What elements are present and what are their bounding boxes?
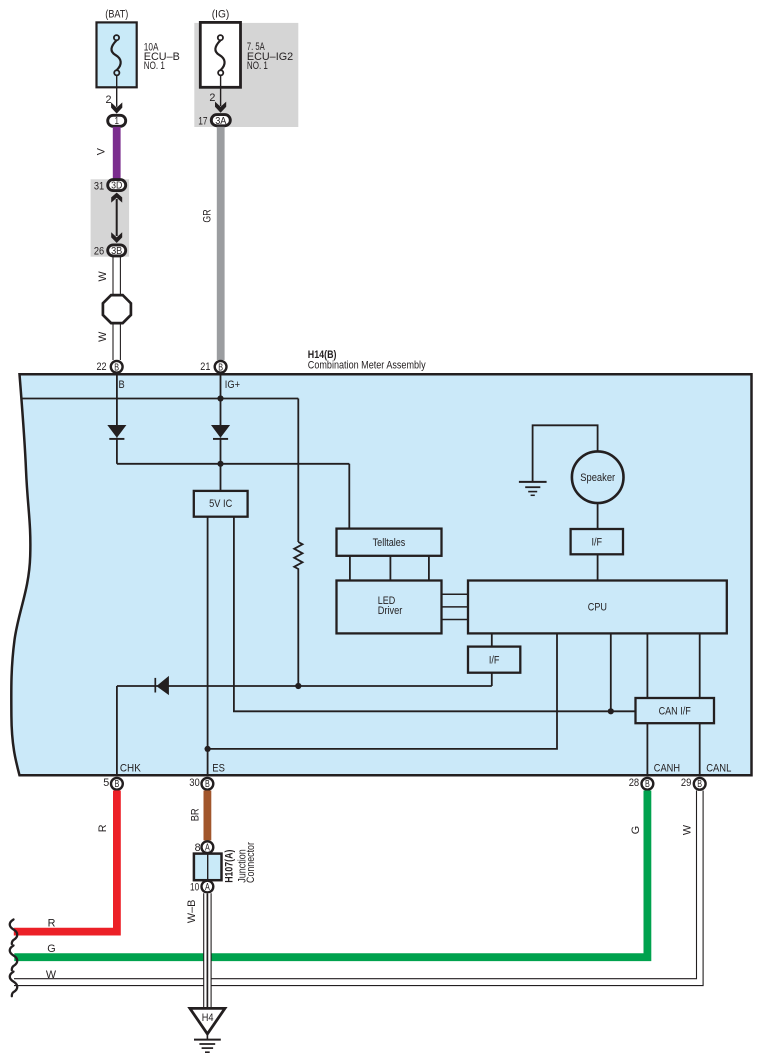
- svg-text:CAN I/F: CAN I/F: [659, 706, 692, 718]
- svg-text:NO. 1: NO. 1: [247, 60, 268, 72]
- ground symbol (speaker): [519, 482, 547, 495]
- svg-text:3B: 3B: [111, 246, 122, 257]
- svg-text:BR: BR: [189, 808, 201, 821]
- I/F box U3: [468, 647, 520, 673]
- wire pin21 down to diode D2: [220, 375, 222, 425]
- pin 5 connector B: [111, 778, 123, 790]
- svg-text:21: 21: [200, 361, 210, 373]
- svg-text:I/F: I/F: [592, 536, 603, 548]
- svg-text:5V IC: 5V IC: [209, 498, 232, 510]
- fuse F1 ECU-B body: [97, 22, 137, 87]
- pin 8 connector A: [202, 841, 214, 853]
- svg-text:22: 22: [97, 361, 107, 373]
- svg-text:V: V: [96, 147, 108, 155]
- svg-text:A: A: [205, 882, 210, 893]
- wire W white (CANL): [14, 791, 703, 986]
- svg-text:(BAT): (BAT): [105, 9, 128, 21]
- svg-text:ES: ES: [212, 763, 225, 775]
- pin 29 connector B: [694, 778, 706, 790]
- svg-text:R: R: [48, 917, 56, 929]
- ground symbol H4 bars: [194, 1034, 221, 1052]
- continuation squiggle (R): [10, 920, 18, 945]
- svg-text:G: G: [630, 826, 642, 834]
- svg-text:Telltales: Telltales: [373, 537, 406, 549]
- wire CPU down to CAN rail node: [610, 633, 612, 711]
- wires Telltales to LED Driver: [350, 556, 429, 581]
- wire R red (CHK): [14, 791, 117, 932]
- 5V IC box: [194, 491, 248, 517]
- arrow into connector 3A: [215, 102, 226, 113]
- svg-text:Driver: Driver: [378, 605, 403, 617]
- svg-text:GR: GR: [202, 209, 214, 222]
- svg-text:NO. 1: NO. 1: [144, 60, 165, 72]
- wire CPU to CANH pin 28: [646, 633, 648, 776]
- svg-text:5: 5: [103, 777, 109, 789]
- svg-text:3D: 3D: [111, 181, 122, 192]
- Telltales box: [337, 529, 442, 556]
- junction node resistor/CHK rail: [295, 683, 301, 689]
- svg-text:1: 1: [114, 116, 119, 127]
- diode D1: [107, 425, 126, 464]
- svg-text:2: 2: [105, 94, 111, 106]
- svg-text:G: G: [47, 943, 55, 955]
- svg-text:(IG): (IG): [212, 9, 230, 21]
- svg-text:I/F: I/F: [489, 654, 500, 666]
- wire CHK rail y686: [117, 685, 492, 687]
- diode D2: [211, 425, 230, 464]
- svg-text:B: B: [114, 362, 119, 373]
- resistor R1: [294, 542, 302, 686]
- wire CPU to CANL pin 29: [699, 633, 701, 776]
- pin 28 connector B: [642, 778, 654, 790]
- wire 5VIC right output down then right: [234, 517, 636, 712]
- wire W-B white/black (to ground): [204, 893, 211, 1009]
- LED Driver box: [337, 581, 442, 634]
- svg-text:CPU: CPU: [588, 601, 607, 613]
- CPU box U4: [468, 581, 727, 634]
- continuation squiggle (G): [10, 946, 18, 971]
- svg-text:H107(A): H107(A): [223, 849, 235, 883]
- wire speaker to I/F U2: [597, 503, 599, 529]
- wire I/F U3 to CHK rail: [491, 673, 493, 686]
- svg-text:26: 26: [94, 245, 104, 257]
- svg-text:10: 10: [190, 881, 199, 893]
- speaker SP1: [572, 451, 624, 503]
- junction node CAN rail: [608, 708, 614, 714]
- wire W white upper: [113, 256, 120, 360]
- ground H4 triangle: [190, 1008, 225, 1034]
- wire G green (CANH): [14, 791, 647, 958]
- svg-text:W–B: W–B: [186, 900, 198, 923]
- junction connector H107(A) box: [194, 854, 222, 881]
- svg-text:B: B: [645, 779, 650, 790]
- svg-text:B: B: [119, 379, 125, 391]
- wire GR gray: [217, 127, 225, 360]
- wire fuse F2 to arrow: [220, 75, 222, 106]
- bus LED Driver to CPU: [442, 594, 468, 619]
- connector 3B: [108, 245, 126, 257]
- svg-text:Combination Meter Assembly: Combination Meter Assembly: [308, 360, 426, 372]
- svg-text:W: W: [97, 271, 109, 282]
- ground (speaker) wire: [533, 425, 598, 481]
- svg-text:3A: 3A: [215, 116, 226, 127]
- svg-text:8: 8: [195, 842, 201, 854]
- svg-text:CANL: CANL: [706, 763, 731, 775]
- connector block 3D/3B gray background: [91, 179, 130, 256]
- arrow up (3D side): [111, 193, 122, 203]
- pin 10 connector A: [202, 881, 214, 893]
- svg-text:IG+: IG+: [225, 379, 240, 391]
- svg-text:30: 30: [189, 777, 200, 789]
- svg-text:A: A: [205, 843, 210, 854]
- wire BR brown (ES): [203, 791, 211, 841]
- svg-text:W: W: [682, 824, 694, 835]
- junction node at IG+/y398: [217, 395, 223, 401]
- pin 21 connector B: [215, 361, 227, 373]
- wire down to resistor R1: [297, 399, 299, 543]
- junction node ES rail: [205, 746, 211, 752]
- svg-text:31: 31: [94, 180, 104, 192]
- junction node at 5VIC rail: [217, 461, 223, 467]
- svg-text:R: R: [97, 824, 109, 832]
- relay block gray background (IG): [194, 23, 298, 127]
- svg-text:28: 28: [629, 777, 640, 789]
- connector 1: [108, 115, 126, 127]
- continuation squiggle (W): [10, 972, 18, 997]
- svg-text:2: 2: [209, 92, 215, 104]
- wire I/F U2 to CPU: [597, 554, 599, 580]
- svg-text:W: W: [46, 969, 57, 981]
- wire horizontal rail y463: [117, 463, 349, 465]
- arrow down (3B side): [111, 232, 122, 243]
- fuse F2 ECU-IG2 body: [200, 22, 240, 87]
- svg-text:H4: H4: [202, 1012, 214, 1024]
- svg-text:17: 17: [198, 115, 207, 127]
- svg-text:W: W: [97, 331, 109, 342]
- noise filter octagon: [103, 295, 131, 323]
- diode D3 (points left): [155, 676, 169, 695]
- CAN I/F box U5: [636, 698, 715, 723]
- pin 22 connector B: [111, 361, 123, 373]
- wire between arrows: [116, 199, 118, 236]
- wire down to 5V IC: [220, 464, 222, 491]
- I/F box U2 (speaker): [571, 529, 623, 554]
- svg-text:Speaker: Speaker: [580, 472, 615, 484]
- wire down to Telltales: [348, 464, 350, 529]
- wire fuse F1 to arrow: [116, 75, 118, 106]
- wire 5VIC left output down to pin 30: [207, 517, 209, 777]
- connector 3A: [211, 115, 230, 127]
- arrow into connector 1: [111, 102, 122, 113]
- value label 7.5A ECU-IG2 NO. 1: [247, 41, 293, 72]
- svg-text:B: B: [115, 779, 120, 790]
- svg-text:B: B: [205, 779, 210, 790]
- combination meter assembly box H14(B): [11, 374, 751, 775]
- wire horizontal B rail y398: [22, 398, 298, 400]
- wire pin22 down to diode D1: [116, 375, 118, 425]
- wire pin 5 up to CHK rail: [116, 686, 118, 776]
- wire V violet: [113, 127, 121, 180]
- svg-text:B: B: [218, 362, 223, 373]
- svg-text:B: B: [697, 779, 702, 790]
- svg-text:CHK: CHK: [120, 763, 142, 775]
- value label 10A ECU-B NO. 1: [144, 42, 180, 73]
- pin 30 connector B: [202, 778, 214, 790]
- connector 3D: [108, 180, 126, 192]
- svg-text:Connector: Connector: [245, 842, 257, 883]
- wire CPU down to ES rail: [208, 633, 557, 749]
- wire CPU to I/F U3: [491, 633, 493, 647]
- svg-text:CANH: CANH: [654, 763, 680, 775]
- svg-text:29: 29: [681, 777, 692, 789]
